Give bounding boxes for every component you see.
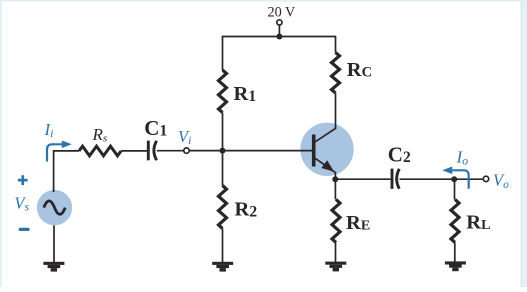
- resistor RE: [332, 200, 340, 243]
- resistor RL: [451, 200, 459, 243]
- wire RL to ground: [454, 243, 456, 263]
- transistor Q1 emitter lead: [315, 158, 336, 180]
- wire output node to RL: [454, 179, 456, 199]
- arrow Io: [453, 170, 469, 189]
- capacitor C1: [147, 141, 150, 161]
- wire emitter to RE: [334, 179, 336, 199]
- resistor R1: [219, 70, 227, 113]
- ground under RE: [325, 262, 346, 265]
- wire Rs to C1: [121, 150, 147, 152]
- wire Vi to base: [190, 150, 314, 152]
- transistor Q1 highlight: [300, 123, 353, 176]
- wire emitter to C2: [335, 178, 390, 180]
- wire source to ground: [53, 225, 55, 262]
- wire source to Rs: [54, 151, 79, 191]
- junction output node: [451, 176, 457, 182]
- junction supply on top rail: [276, 34, 282, 40]
- resistor R2: [222, 151, 224, 186]
- capacitor C2: [391, 169, 394, 189]
- junction base node: [220, 148, 226, 154]
- svg-text:20 V: 20 V: [268, 4, 296, 20]
- resistor RC: [332, 53, 340, 94]
- wire supply stem: [278, 25, 280, 36]
- label minus polarity: [19, 228, 30, 231]
- transistor Q1 base bar: [312, 135, 316, 167]
- resistor Rs: [79, 146, 121, 156]
- source Vs body: [37, 190, 72, 225]
- label plus polarity: [18, 179, 28, 182]
- ground under Vs: [43, 262, 64, 265]
- wire R2 to ground: [222, 229, 224, 263]
- transistor Q1 collector lead: [315, 128, 336, 142]
- wire C2 to Vo: [400, 178, 483, 180]
- ground under RL: [445, 261, 466, 264]
- arrow Ii: [47, 144, 63, 161]
- wire top rail to RC: [335, 36, 337, 53]
- wire top rail: [223, 36, 336, 38]
- junction emitter node: [332, 176, 338, 182]
- ground under R2: [212, 262, 233, 265]
- source Vs sine: [44, 201, 65, 214]
- wire top rail to R1: [222, 36, 224, 70]
- wire RC to collector: [335, 93, 337, 129]
- supply terminal node: [277, 20, 282, 25]
- transistor Q1 emitter arrow: [321, 160, 334, 171]
- wire C1 to Vi node: [157, 150, 183, 152]
- node Vo: [483, 176, 488, 181]
- wire R1 to base node: [222, 113, 224, 151]
- node Vi: [184, 148, 189, 153]
- wire source top: [53, 189, 55, 192]
- wire RE to ground: [335, 243, 337, 263]
